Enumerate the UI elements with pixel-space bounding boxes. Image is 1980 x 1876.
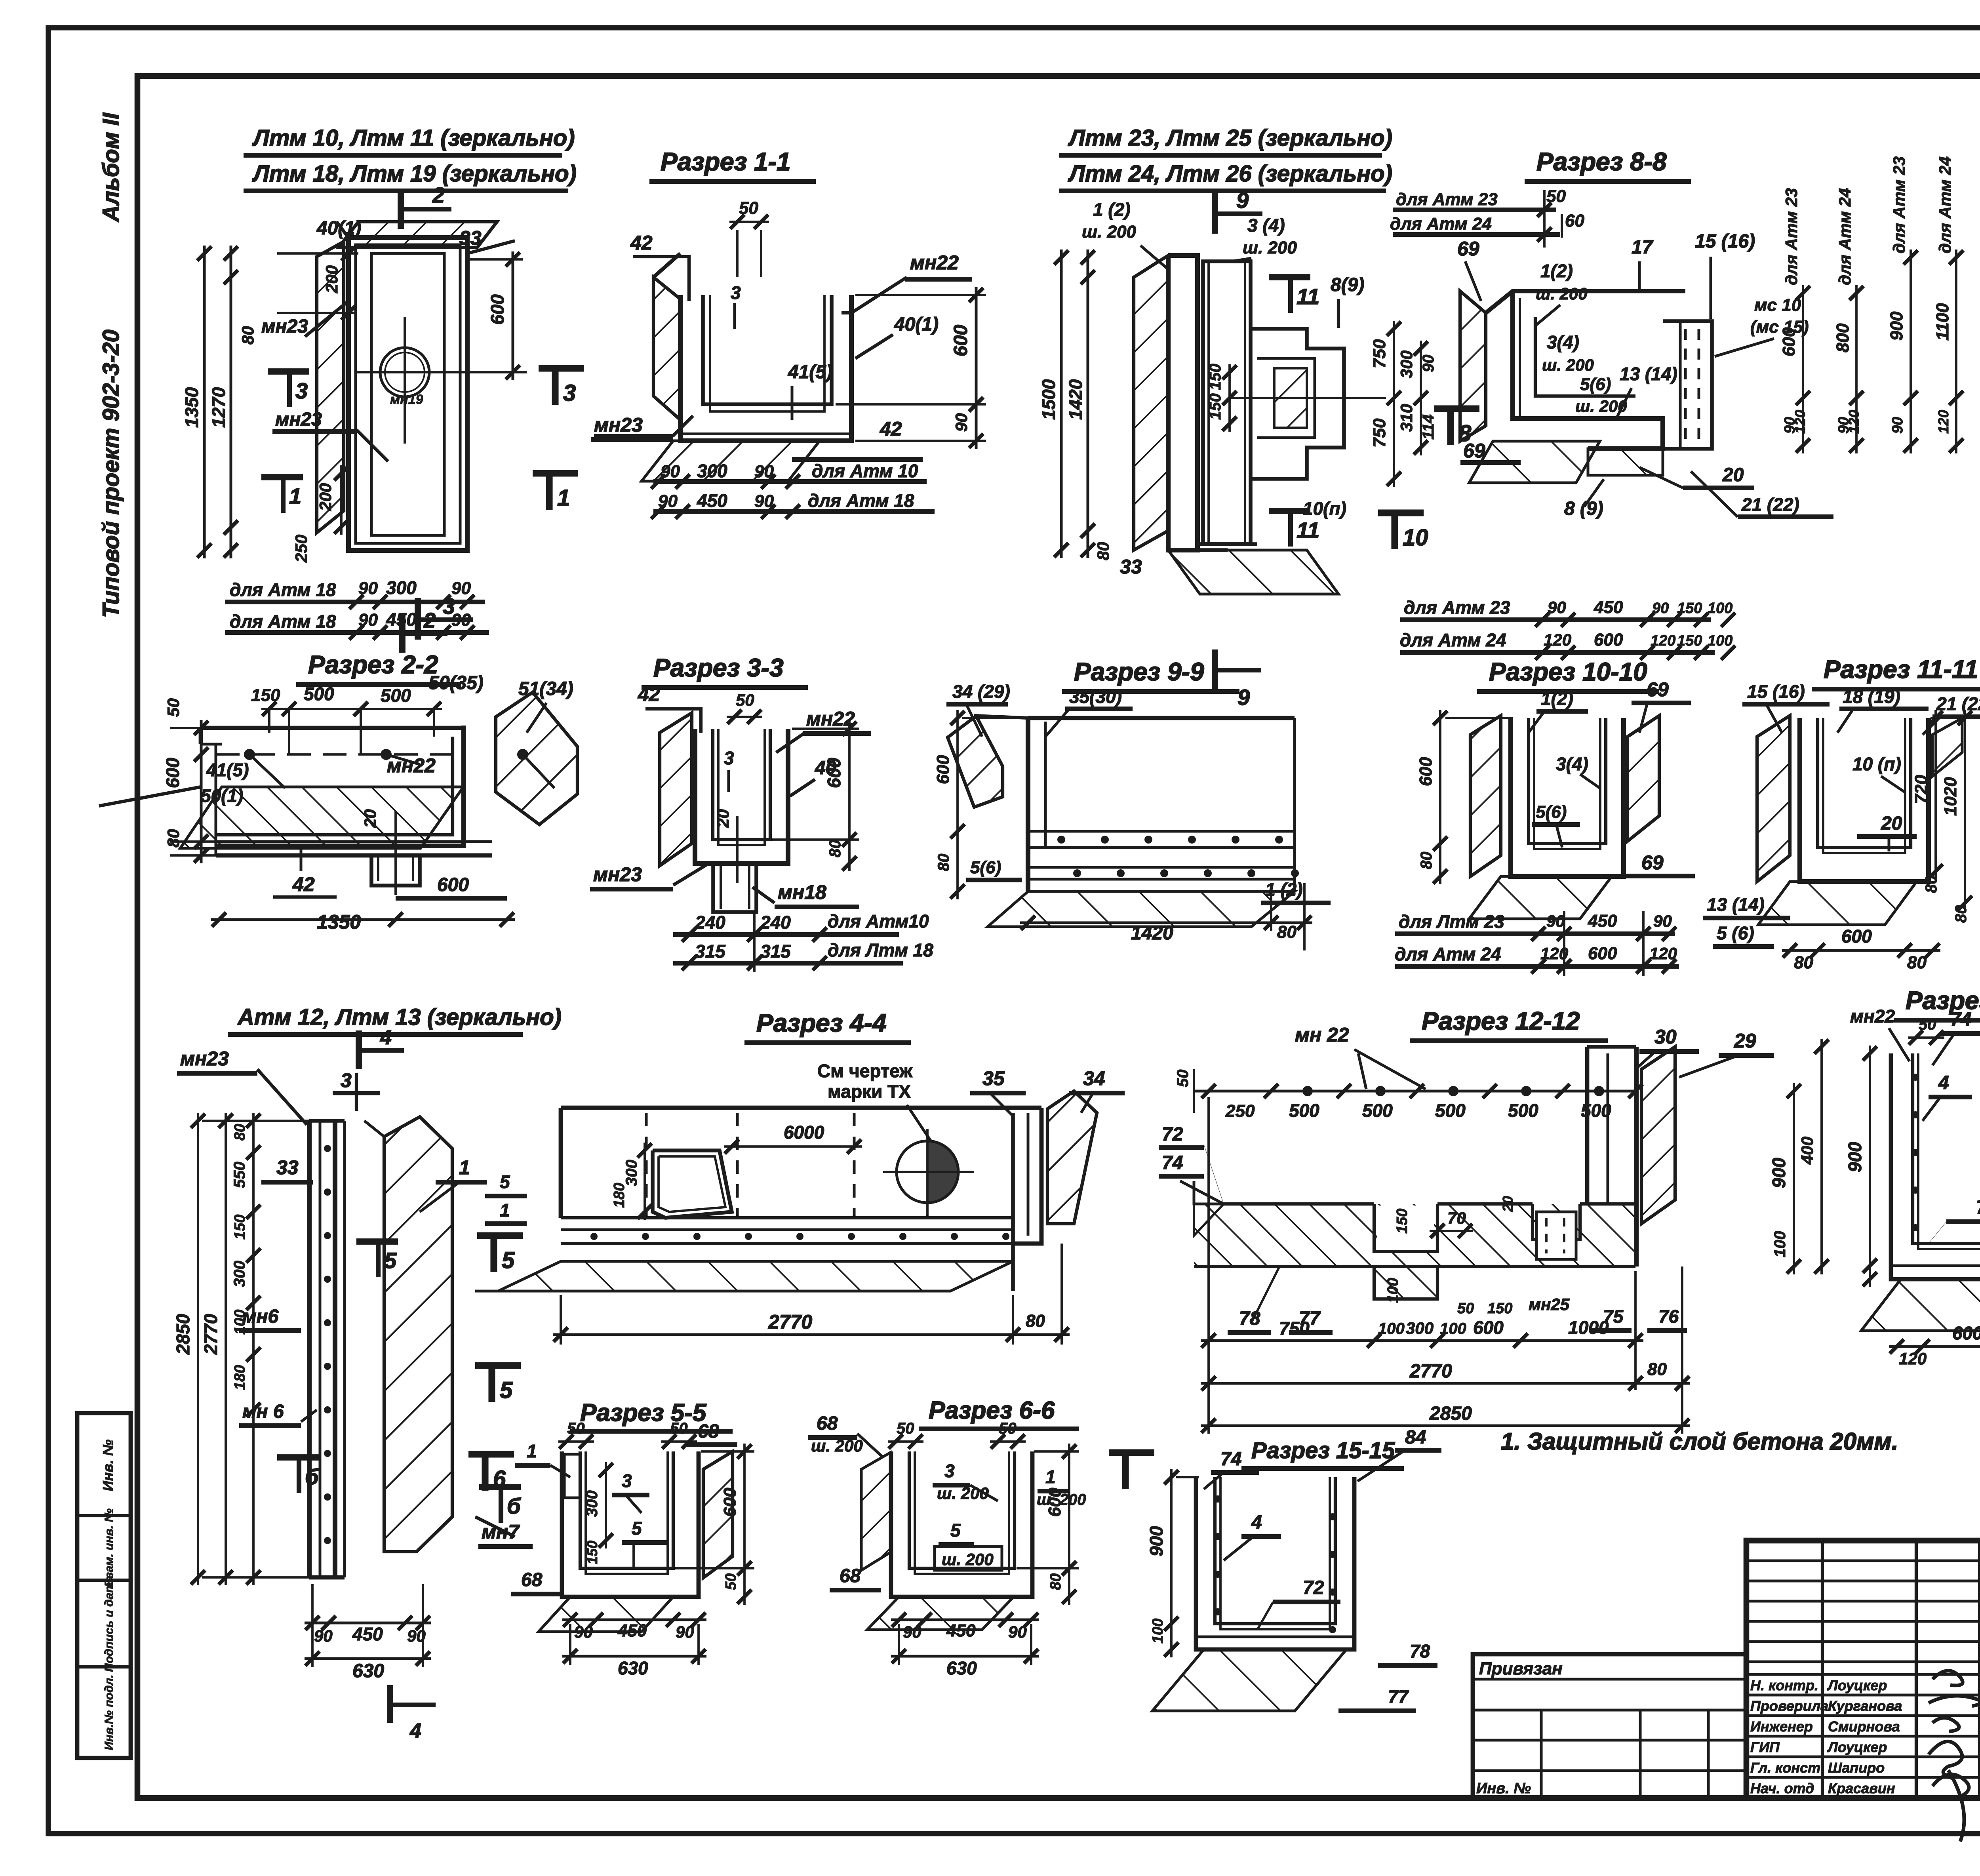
svg-text:41(5): 41(5) bbox=[788, 362, 832, 383]
svg-text:68: 68 bbox=[521, 1569, 543, 1590]
svg-text:600: 600 bbox=[437, 874, 469, 895]
svg-text:90: 90 bbox=[952, 413, 971, 432]
svg-text:90: 90 bbox=[676, 1623, 694, 1641]
svg-text:1420: 1420 bbox=[1131, 923, 1173, 944]
svg-text:40(1): 40(1) bbox=[894, 314, 939, 335]
svg-text:11: 11 bbox=[1297, 518, 1319, 543]
svg-text:для Атм 24: для Атм 24 bbox=[1936, 156, 1954, 253]
svg-text:2770: 2770 bbox=[1409, 1361, 1452, 1382]
svg-text:90: 90 bbox=[1008, 1623, 1027, 1641]
svg-text:77: 77 bbox=[1388, 1686, 1409, 1707]
svg-text:Инв. №: Инв. № bbox=[100, 1440, 116, 1491]
svg-text:33: 33 bbox=[1120, 556, 1142, 578]
svg-text:114: 114 bbox=[1420, 414, 1437, 440]
svg-text:Шапиро: Шапиро bbox=[1828, 1760, 1885, 1776]
svg-text:600: 600 bbox=[824, 758, 844, 788]
svg-text:150: 150 bbox=[251, 686, 280, 705]
svg-text:80: 80 bbox=[232, 1124, 248, 1141]
svg-text:для Атм 24: для Атм 24 bbox=[1835, 188, 1854, 285]
svg-text:50(1): 50(1) bbox=[201, 785, 243, 806]
svg-text:310: 310 bbox=[1397, 404, 1416, 432]
svg-text:50: 50 bbox=[723, 1573, 739, 1590]
svg-text:5 (6): 5 (6) bbox=[1717, 923, 1754, 943]
svg-text:мн 6: мн 6 bbox=[242, 1401, 284, 1422]
svg-text:Разрез 9-9: Разрез 9-9 bbox=[1074, 657, 1204, 686]
svg-text:900: 900 bbox=[1887, 311, 1906, 341]
svg-text:Лтм 24, Лтм 26 (зеркально): Лтм 24, Лтм 26 (зеркально) bbox=[1068, 161, 1392, 187]
svg-text:1100: 1100 bbox=[1933, 303, 1952, 341]
svg-text:50: 50 bbox=[164, 698, 183, 717]
svg-text:76: 76 bbox=[1658, 1306, 1679, 1327]
svg-text:13 (14): 13 (14) bbox=[1707, 894, 1765, 915]
svg-text:для Атм 23: для Атм 23 bbox=[1782, 188, 1801, 285]
svg-text:50: 50 bbox=[736, 691, 754, 709]
svg-text:21 (22): 21 (22) bbox=[1741, 494, 1799, 515]
svg-text:Взам. инв. №: Взам. инв. № bbox=[103, 1508, 116, 1587]
svg-text:3: 3 bbox=[295, 378, 308, 403]
svg-text:250: 250 bbox=[1225, 1101, 1255, 1121]
svg-text:1: 1 bbox=[289, 484, 301, 509]
svg-text:120: 120 bbox=[1899, 1349, 1927, 1368]
svg-text:40(1): 40(1) bbox=[316, 218, 361, 239]
svg-text:450: 450 bbox=[352, 1624, 383, 1644]
svg-text:80: 80 bbox=[1026, 1311, 1045, 1331]
svg-text:80: 80 bbox=[1907, 953, 1927, 972]
svg-text:200: 200 bbox=[316, 483, 335, 511]
svg-text:для Атм 23: для Атм 23 bbox=[1404, 597, 1510, 618]
svg-text:100: 100 bbox=[1385, 1278, 1401, 1303]
svg-text:80: 80 bbox=[826, 840, 844, 858]
svg-text:Альбом II: Альбом II bbox=[98, 112, 124, 223]
svg-text:600: 600 bbox=[950, 325, 971, 356]
svg-text:б: б bbox=[507, 1493, 521, 1518]
svg-text:2770: 2770 bbox=[768, 1311, 812, 1333]
svg-text:35(30): 35(30) bbox=[1069, 686, 1122, 707]
svg-text:Инженер: Инженер bbox=[1750, 1718, 1813, 1735]
svg-text:90: 90 bbox=[1420, 355, 1437, 373]
svg-text:750: 750 bbox=[1370, 418, 1389, 448]
svg-text:29: 29 bbox=[1734, 1030, 1756, 1052]
svg-text:450: 450 bbox=[1594, 598, 1623, 617]
svg-text:80: 80 bbox=[1952, 905, 1970, 923]
svg-text:5: 5 bbox=[384, 1248, 397, 1273]
svg-text:10 (п): 10 (п) bbox=[1852, 754, 1901, 774]
svg-text:70: 70 bbox=[1447, 1209, 1466, 1227]
svg-text:69: 69 bbox=[1463, 440, 1485, 462]
svg-text:500: 500 bbox=[1435, 1100, 1466, 1121]
svg-text:ш. 200: ш. 200 bbox=[811, 1436, 863, 1455]
svg-text:450: 450 bbox=[1588, 911, 1617, 931]
svg-text:20: 20 bbox=[361, 809, 379, 828]
svg-text:72: 72 bbox=[1976, 1197, 1980, 1218]
svg-text:450: 450 bbox=[697, 490, 727, 511]
svg-text:42: 42 bbox=[880, 418, 902, 440]
svg-text:50: 50 bbox=[670, 1420, 688, 1437]
svg-text:2850: 2850 bbox=[173, 1314, 193, 1355]
svg-text:Лтм 18, Лтм 19 (зеркально): Лтм 18, Лтм 19 (зеркально) bbox=[252, 161, 577, 187]
svg-text:ш. 200: ш. 200 bbox=[942, 1550, 994, 1569]
svg-text:5: 5 bbox=[632, 1518, 642, 1539]
svg-text:3 (4): 3 (4) bbox=[1247, 215, 1285, 236]
svg-text:Гл. конст: Гл. конст bbox=[1750, 1760, 1820, 1776]
svg-text:ш. 200: ш. 200 bbox=[1542, 356, 1594, 374]
svg-text:1(2): 1(2) bbox=[1540, 261, 1573, 281]
svg-text:1: 1 bbox=[527, 1441, 537, 1461]
svg-text:для Атм 18: для Атм 18 bbox=[230, 579, 336, 600]
svg-text:500: 500 bbox=[1508, 1100, 1538, 1121]
svg-text:600: 600 bbox=[162, 758, 183, 788]
svg-text:мн23: мн23 bbox=[180, 1048, 229, 1070]
svg-text:Курганова: Курганова bbox=[1828, 1698, 1902, 1714]
svg-text:1500: 1500 bbox=[1038, 379, 1059, 420]
svg-text:Лтм 23, Лтм 25 (зеркально): Лтм 23, Лтм 25 (зеркально) bbox=[1068, 125, 1392, 151]
svg-text:68: 68 bbox=[840, 1566, 861, 1587]
svg-text:10(п): 10(п) bbox=[1303, 498, 1346, 519]
svg-text:42: 42 bbox=[292, 873, 315, 895]
svg-text:Инв. №: Инв. № bbox=[1476, 1780, 1531, 1797]
svg-text:51(34): 51(34) bbox=[518, 678, 573, 699]
svg-text:4: 4 bbox=[1251, 1512, 1262, 1533]
svg-text:Инв.№ подл.: Инв.№ подл. bbox=[103, 1674, 116, 1750]
svg-text:100: 100 bbox=[1378, 1320, 1405, 1337]
svg-text:3: 3 bbox=[944, 1461, 955, 1481]
svg-text:мн22: мн22 bbox=[806, 708, 855, 730]
svg-text:550: 550 bbox=[231, 1162, 248, 1188]
svg-text:600: 600 bbox=[1045, 1487, 1064, 1517]
svg-text:240: 240 bbox=[695, 912, 725, 933]
svg-text:5: 5 bbox=[500, 1171, 510, 1192]
svg-text:150: 150 bbox=[1207, 393, 1224, 420]
svg-text:1350: 1350 bbox=[181, 387, 202, 428]
svg-text:300: 300 bbox=[623, 1160, 640, 1186]
svg-text:2: 2 bbox=[423, 609, 436, 632]
svg-text:Привязан: Привязан bbox=[1479, 1659, 1563, 1678]
svg-text:74: 74 bbox=[1950, 1009, 1971, 1030]
svg-text:600: 600 bbox=[1588, 944, 1617, 963]
svg-text:Нач. отд: Нач. отд bbox=[1750, 1780, 1814, 1796]
svg-text:69: 69 bbox=[1647, 678, 1669, 701]
svg-text:180: 180 bbox=[611, 1183, 628, 1208]
svg-text:См чертеж: См чертеж bbox=[817, 1061, 912, 1081]
svg-text:для Атм 10: для Атм 10 bbox=[812, 461, 918, 481]
svg-text:100: 100 bbox=[1150, 1619, 1166, 1644]
svg-text:240: 240 bbox=[760, 912, 791, 933]
svg-text:Лтм 10, Лтм 11 (зеркально): Лтм 10, Лтм 11 (зеркально) bbox=[252, 125, 575, 151]
svg-text:150: 150 bbox=[232, 1215, 248, 1240]
svg-text:для Атм 24: для Атм 24 bbox=[1390, 214, 1492, 234]
svg-text:80: 80 bbox=[1418, 852, 1435, 870]
svg-text:Красавин: Красавин bbox=[1828, 1780, 1895, 1796]
svg-text:ГИП: ГИП bbox=[1750, 1739, 1780, 1755]
svg-text:мн6: мн6 bbox=[242, 1306, 279, 1327]
svg-text:72: 72 bbox=[1303, 1577, 1324, 1598]
svg-text:20: 20 bbox=[1881, 813, 1902, 834]
svg-text:3: 3 bbox=[622, 1470, 632, 1491]
svg-text:для Атм 23: для Атм 23 bbox=[1890, 156, 1908, 253]
svg-text:мн19: мн19 bbox=[390, 392, 423, 407]
svg-text:600: 600 bbox=[1416, 757, 1435, 786]
svg-text:10: 10 bbox=[1403, 525, 1428, 550]
svg-text:900: 900 bbox=[1146, 1526, 1167, 1556]
svg-text:мн22: мн22 bbox=[1850, 1006, 1895, 1027]
svg-text:315: 315 bbox=[760, 941, 791, 962]
svg-text:80: 80 bbox=[1277, 922, 1297, 942]
svg-text:Разрез 10-10: Разрез 10-10 bbox=[1489, 657, 1647, 686]
svg-text:60: 60 bbox=[1565, 211, 1584, 230]
svg-text:20: 20 bbox=[1722, 465, 1744, 486]
svg-text:мн23: мн23 bbox=[593, 863, 642, 886]
svg-text:мн 22: мн 22 bbox=[1295, 1024, 1349, 1046]
svg-text:Разрез 6-6: Разрез 6-6 bbox=[929, 1397, 1055, 1424]
svg-text:1(2): 1(2) bbox=[1541, 688, 1573, 709]
svg-text:для Атм 18: для Атм 18 bbox=[230, 611, 336, 632]
svg-text:б: б bbox=[305, 1464, 319, 1489]
svg-text:ш. 200: ш. 200 bbox=[1536, 284, 1588, 303]
svg-text:42: 42 bbox=[630, 232, 653, 254]
svg-text:250: 250 bbox=[292, 535, 310, 563]
svg-text:Разрез 1-1: Разрез 1-1 bbox=[661, 147, 791, 176]
svg-text:Разрез 11-11: Разрез 11-11 bbox=[1824, 655, 1978, 684]
svg-text:Н. контр.: Н. контр. bbox=[1750, 1677, 1818, 1693]
svg-text:1270: 1270 bbox=[208, 387, 229, 428]
svg-text:Подпись и дата: Подпись и дата bbox=[103, 1575, 116, 1672]
svg-text:мн18: мн18 bbox=[778, 881, 826, 903]
svg-text:68: 68 bbox=[817, 1413, 838, 1434]
svg-text:100: 100 bbox=[1708, 600, 1732, 617]
svg-text:13 (14): 13 (14) bbox=[1620, 364, 1677, 384]
svg-text:50: 50 bbox=[1174, 1070, 1192, 1088]
svg-text:120: 120 bbox=[1846, 410, 1862, 434]
svg-text:80: 80 bbox=[1647, 1360, 1667, 1379]
svg-text:80: 80 bbox=[935, 854, 952, 872]
svg-text:4: 4 bbox=[409, 1720, 421, 1743]
svg-text:6000: 6000 bbox=[784, 1122, 824, 1143]
svg-text:5: 5 bbox=[502, 1247, 515, 1273]
svg-text:600: 600 bbox=[933, 755, 953, 784]
svg-text:750: 750 bbox=[1279, 1318, 1310, 1339]
svg-text:3: 3 bbox=[563, 380, 576, 406]
svg-text:400: 400 bbox=[1798, 1137, 1816, 1165]
svg-text:300: 300 bbox=[1406, 1319, 1434, 1337]
svg-text:90: 90 bbox=[451, 610, 471, 630]
svg-text:5(6): 5(6) bbox=[1536, 802, 1567, 822]
svg-text:50: 50 bbox=[739, 198, 758, 218]
svg-text:1: 1 bbox=[500, 1200, 510, 1221]
svg-text:33: 33 bbox=[459, 227, 482, 249]
svg-text:9: 9 bbox=[1237, 685, 1250, 710]
svg-text:35: 35 bbox=[982, 1067, 1005, 1089]
svg-text:450: 450 bbox=[617, 1621, 647, 1640]
svg-text:15 (16): 15 (16) bbox=[1695, 231, 1755, 252]
svg-text:500: 500 bbox=[304, 684, 334, 704]
svg-text:5: 5 bbox=[950, 1520, 961, 1541]
svg-text:500: 500 bbox=[1289, 1100, 1319, 1121]
svg-text:600: 600 bbox=[1473, 1317, 1504, 1338]
svg-text:1: 1 bbox=[557, 485, 570, 511]
svg-text:150: 150 bbox=[1394, 1209, 1411, 1234]
svg-text:180: 180 bbox=[232, 1365, 248, 1390]
svg-text:600: 600 bbox=[720, 1487, 740, 1517]
svg-text:для Лтм 23: для Лтм 23 bbox=[1399, 911, 1504, 932]
svg-text:2850: 2850 bbox=[1429, 1403, 1472, 1424]
svg-text:Разрез 3-3: Разрез 3-3 bbox=[653, 653, 784, 682]
svg-text:мс 10: мс 10 bbox=[1754, 295, 1801, 315]
svg-text:80: 80 bbox=[164, 829, 183, 848]
svg-text:9: 9 bbox=[1236, 188, 1249, 213]
svg-text:ш. 200: ш. 200 bbox=[937, 1484, 989, 1503]
svg-text:3: 3 bbox=[731, 282, 741, 303]
svg-text:120: 120 bbox=[1935, 410, 1951, 434]
svg-text:200: 200 bbox=[322, 265, 341, 293]
svg-text:500: 500 bbox=[381, 685, 411, 706]
svg-text:50: 50 bbox=[897, 1420, 914, 1437]
svg-text:120: 120 bbox=[1792, 410, 1808, 434]
svg-text:Атм 12, Лтм 13 (зеркально): Атм 12, Лтм 13 (зеркально) bbox=[237, 1004, 562, 1030]
svg-text:4: 4 bbox=[1938, 1072, 1949, 1093]
svg-text:315: 315 bbox=[695, 941, 726, 962]
svg-text:300: 300 bbox=[386, 577, 417, 598]
svg-text:для Атм10: для Атм10 bbox=[828, 911, 929, 931]
svg-text:1000: 1000 bbox=[1568, 1317, 1609, 1338]
svg-text:8(9): 8(9) bbox=[1331, 274, 1364, 295]
svg-text:80: 80 bbox=[238, 326, 257, 345]
svg-text:80: 80 bbox=[1047, 1573, 1064, 1590]
svg-text:марки ТХ: марки ТХ bbox=[828, 1081, 911, 1102]
svg-text:50: 50 bbox=[1919, 1016, 1936, 1033]
svg-text:630: 630 bbox=[352, 1661, 384, 1682]
svg-text:для Атм 23: для Атм 23 bbox=[1396, 190, 1498, 209]
svg-text:900: 900 bbox=[1769, 1158, 1789, 1188]
svg-text:мн23: мн23 bbox=[594, 414, 643, 436]
svg-text:мн22: мн22 bbox=[910, 251, 959, 274]
svg-text:2: 2 bbox=[432, 183, 445, 208]
svg-text:630: 630 bbox=[946, 1658, 977, 1678]
svg-text:300: 300 bbox=[1397, 350, 1416, 378]
svg-text:80: 80 bbox=[1794, 953, 1813, 972]
svg-text:90: 90 bbox=[451, 579, 471, 598]
svg-text:80: 80 bbox=[1923, 876, 1940, 893]
svg-text:5(6): 5(6) bbox=[970, 858, 1001, 877]
svg-text:для Атм 18: для Атм 18 bbox=[808, 490, 914, 511]
svg-text:1020: 1020 bbox=[1941, 777, 1960, 816]
svg-text:800: 800 bbox=[1833, 323, 1852, 352]
svg-text:90: 90 bbox=[1546, 912, 1565, 930]
svg-text:3: 3 bbox=[724, 748, 734, 768]
svg-text:1 (2): 1 (2) bbox=[1093, 199, 1131, 220]
svg-text:3: 3 bbox=[341, 1069, 352, 1091]
svg-text:1: 1 bbox=[1045, 1467, 1056, 1487]
svg-text:150: 150 bbox=[1487, 1300, 1512, 1317]
svg-text:34 (29): 34 (29) bbox=[952, 681, 1010, 702]
svg-text:33: 33 bbox=[276, 1156, 299, 1179]
svg-text:90: 90 bbox=[1889, 417, 1906, 434]
svg-text:100: 100 bbox=[1708, 632, 1732, 649]
svg-text:ш. 200: ш. 200 bbox=[1243, 238, 1297, 257]
svg-text:Лоуцкер: Лоуцкер bbox=[1827, 1739, 1887, 1755]
svg-text:3(4): 3(4) bbox=[1556, 754, 1588, 774]
svg-text:84: 84 bbox=[1405, 1427, 1426, 1448]
svg-text:Смирнова: Смирнова bbox=[1828, 1718, 1900, 1735]
svg-text:450: 450 bbox=[946, 1621, 976, 1640]
svg-text:Типовой проект 902-3-20: Типовой проект 902-3-20 bbox=[98, 329, 124, 618]
svg-text:для Атм 24: для Атм 24 bbox=[1395, 944, 1501, 964]
svg-text:Разрез 4-4: Разрез 4-4 bbox=[756, 1009, 887, 1037]
svg-text:74: 74 bbox=[1162, 1152, 1183, 1173]
svg-text:600: 600 bbox=[1841, 926, 1872, 947]
svg-text:300: 300 bbox=[583, 1490, 601, 1517]
svg-text:750: 750 bbox=[1370, 339, 1389, 368]
svg-text:500: 500 bbox=[1362, 1100, 1393, 1121]
svg-text:Разрез 8-8: Разрез 8-8 bbox=[1536, 147, 1667, 176]
svg-text:мн25: мн25 bbox=[1529, 1295, 1570, 1314]
svg-text:50: 50 bbox=[567, 1420, 585, 1437]
svg-text:8 (9): 8 (9) bbox=[1564, 498, 1603, 519]
svg-text:600: 600 bbox=[487, 294, 508, 325]
svg-text:78: 78 bbox=[1410, 1641, 1430, 1661]
svg-text:5(6): 5(6) bbox=[1580, 375, 1611, 394]
svg-text:Проверила: Проверила bbox=[1750, 1698, 1828, 1714]
svg-text:50: 50 bbox=[1457, 1300, 1474, 1317]
svg-text:мн23: мн23 bbox=[275, 409, 322, 430]
svg-text:17: 17 bbox=[1632, 237, 1654, 258]
svg-text:15 (16): 15 (16) bbox=[1747, 681, 1805, 702]
svg-text:600: 600 bbox=[1594, 630, 1623, 649]
svg-text:Разрез 15-15: Разрез 15-15 bbox=[1251, 1438, 1395, 1463]
svg-text:69: 69 bbox=[1641, 851, 1664, 874]
svg-text:11: 11 bbox=[1297, 284, 1319, 309]
svg-text:1420: 1420 bbox=[1065, 379, 1086, 420]
svg-text:150: 150 bbox=[584, 1541, 600, 1564]
svg-text:30: 30 bbox=[1654, 1026, 1677, 1048]
svg-text:Лоуцкер: Лоуцкер bbox=[1827, 1677, 1887, 1693]
svg-text:ш. 200: ш. 200 bbox=[1082, 222, 1137, 242]
svg-text:5: 5 bbox=[500, 1377, 513, 1403]
svg-text:для Атм 24: для Атм 24 bbox=[1400, 630, 1506, 650]
svg-text:50(35): 50(35) bbox=[428, 672, 484, 693]
svg-text:100: 100 bbox=[1440, 1320, 1466, 1337]
svg-text:1350: 1350 bbox=[317, 911, 361, 933]
svg-text:68: 68 bbox=[698, 1421, 719, 1442]
svg-text:Разрез 5-5: Разрез 5-5 bbox=[580, 1399, 707, 1427]
svg-text:300: 300 bbox=[697, 461, 727, 481]
svg-text:150: 150 bbox=[1207, 364, 1224, 390]
svg-text:600: 600 bbox=[1779, 327, 1799, 356]
svg-text:41(5): 41(5) bbox=[206, 760, 249, 780]
svg-text:900: 900 bbox=[1845, 1142, 1865, 1172]
svg-text:Разрез 12-12: Разрез 12-12 bbox=[1422, 1007, 1580, 1035]
svg-text:50: 50 bbox=[999, 1420, 1017, 1437]
svg-text:300: 300 bbox=[231, 1261, 248, 1287]
svg-text:42: 42 bbox=[638, 683, 660, 705]
svg-text:100: 100 bbox=[1771, 1231, 1789, 1257]
svg-text:90: 90 bbox=[1653, 912, 1672, 930]
svg-text:мн23: мн23 bbox=[261, 316, 308, 337]
svg-text:80: 80 bbox=[1094, 542, 1112, 560]
svg-text:18 (19): 18 (19) bbox=[1843, 686, 1900, 707]
svg-text:20: 20 bbox=[714, 809, 732, 828]
svg-text:74: 74 bbox=[1220, 1449, 1241, 1470]
svg-text:20: 20 bbox=[1500, 1196, 1516, 1212]
svg-text:4: 4 bbox=[380, 1026, 392, 1049]
svg-text:72: 72 bbox=[1162, 1124, 1183, 1145]
svg-text:600: 600 bbox=[1952, 1323, 1980, 1343]
svg-text:Разрез 2-2: Разрез 2-2 bbox=[308, 650, 438, 679]
svg-text:69: 69 bbox=[1457, 238, 1479, 260]
svg-text:3(4): 3(4) bbox=[1547, 332, 1579, 352]
svg-text:90: 90 bbox=[314, 1627, 333, 1645]
svg-text:720: 720 bbox=[1911, 775, 1931, 804]
svg-text:1: 1 bbox=[459, 1156, 470, 1179]
